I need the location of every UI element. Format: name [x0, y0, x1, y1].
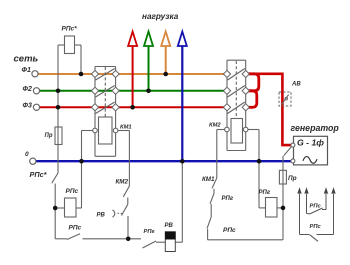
svg-text:КМ1: КМ1 [202, 176, 215, 183]
svg-text:РПг: РПг [222, 196, 234, 202]
svg-text:0: 0 [25, 151, 29, 158]
svg-text:G - 1ф: G - 1ф [297, 137, 324, 147]
svg-text:нагрузка: нагрузка [142, 12, 179, 21]
svg-text:РПс: РПс [69, 225, 82, 232]
svg-text:РВ: РВ [165, 223, 174, 229]
svg-text:РПс*: РПс* [62, 26, 78, 33]
svg-text:Пр: Пр [288, 175, 297, 182]
svg-text:АВ: АВ [291, 82, 301, 88]
svg-text:сеть: сеть [14, 54, 39, 65]
svg-text:Ф2: Ф2 [23, 86, 32, 93]
svg-text:Пр: Пр [45, 133, 53, 139]
svg-text:РПс: РПс [66, 188, 79, 195]
svg-text:РПс: РПс [310, 203, 322, 209]
svg-text:КМ2: КМ2 [116, 179, 129, 186]
svg-text:Ф3: Ф3 [23, 102, 32, 109]
svg-text:Ф1: Ф1 [22, 67, 31, 74]
svg-text:генератор: генератор [291, 123, 340, 133]
svg-text:РПг: РПг [144, 229, 155, 235]
svg-text:РПс*: РПс* [30, 170, 48, 179]
svg-text:КМ2: КМ2 [209, 123, 221, 129]
svg-text:КМ1: КМ1 [120, 124, 132, 130]
svg-text:РВ: РВ [97, 213, 106, 219]
svg-text:РПс: РПс [223, 227, 236, 234]
svg-text:РПг: РПг [259, 190, 271, 196]
svg-text:РПс: РПс [310, 224, 322, 230]
